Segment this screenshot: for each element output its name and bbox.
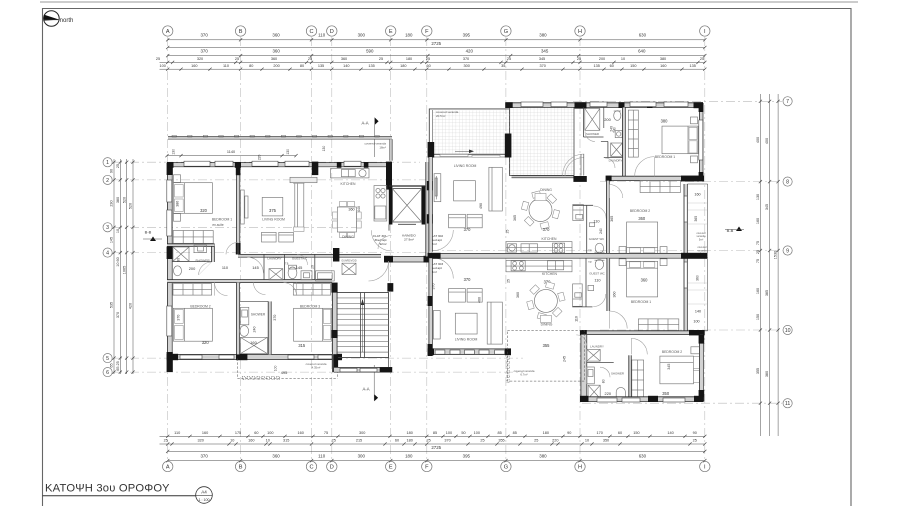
svg-text:20.5m²: 20.5m² bbox=[436, 114, 445, 118]
bedroom 2 bed bbox=[173, 308, 212, 341]
page top trim line bbox=[40, 1, 858, 3]
svg-text:135: 135 bbox=[368, 64, 374, 68]
svg-text:370: 370 bbox=[464, 227, 472, 232]
svg-text:25: 25 bbox=[332, 439, 336, 443]
svg-text:90: 90 bbox=[567, 431, 571, 435]
svg-text:6.7m²: 6.7m² bbox=[520, 373, 527, 377]
bottom dimension row 1 bbox=[160, 435, 705, 437]
svg-text:75: 75 bbox=[756, 259, 760, 263]
bedroom 1 nightstands bbox=[174, 175, 181, 221]
svg-text:145: 145 bbox=[296, 265, 303, 270]
svg-text:160: 160 bbox=[756, 218, 760, 224]
top dimension row 3 bbox=[160, 61, 705, 63]
svg-text:180: 180 bbox=[543, 431, 549, 435]
hall cabinet 301 bbox=[316, 271, 335, 281]
svg-text:160: 160 bbox=[248, 439, 254, 443]
svg-text:140: 140 bbox=[343, 64, 349, 68]
svg-text:E: E bbox=[389, 465, 393, 471]
svg-text:230: 230 bbox=[110, 200, 114, 206]
grid bubble H bottom bbox=[575, 461, 585, 471]
svg-text:495: 495 bbox=[281, 370, 288, 375]
svg-text:27.9m²: 27.9m² bbox=[404, 238, 414, 242]
bedroom1 302 south wall bbox=[606, 176, 704, 182]
svg-text:1530: 1530 bbox=[774, 251, 778, 259]
bedroom1 303 labels bbox=[613, 277, 652, 304]
svg-text:A4: A4 bbox=[201, 490, 207, 495]
bedroom2 302 wardrobe bbox=[640, 181, 680, 193]
svg-text:140: 140 bbox=[695, 310, 701, 314]
right veranda top edge bbox=[429, 108, 509, 110]
grid bubble D bottom bbox=[327, 461, 337, 471]
svg-text:C: C bbox=[309, 29, 313, 35]
svg-text:180: 180 bbox=[407, 439, 413, 443]
svg-text:355: 355 bbox=[756, 368, 760, 374]
svg-text:370: 370 bbox=[273, 315, 277, 321]
svg-text:180: 180 bbox=[407, 431, 413, 435]
svg-text:145: 145 bbox=[110, 237, 114, 243]
svg-text:100: 100 bbox=[446, 431, 452, 435]
svg-text:395: 395 bbox=[463, 33, 471, 38]
kitchen 302 tall cabinets bbox=[573, 205, 584, 221]
living room 303 table bbox=[455, 313, 477, 334]
grid bubble 11 right bbox=[783, 399, 792, 408]
svg-text:KITCHEN: KITCHEN bbox=[341, 182, 356, 186]
grid bubble B bottom bbox=[235, 461, 245, 471]
svg-text:170: 170 bbox=[597, 431, 603, 435]
door arc ensuite 301 bbox=[199, 262, 212, 275]
flat 302 tag bbox=[430, 234, 444, 246]
svg-text:25: 25 bbox=[700, 57, 704, 61]
kitchen 303 counters bbox=[506, 260, 572, 276]
bedroom1 302 west wall bbox=[623, 107, 626, 176]
grid bubble 6 bbox=[103, 368, 112, 377]
kitchen counter right column bbox=[374, 186, 387, 221]
living room sofa bbox=[294, 179, 304, 231]
svg-text:200: 200 bbox=[604, 117, 611, 122]
door arc bedroom1 303 bbox=[610, 311, 628, 329]
bedroom1 302 wardrobe bbox=[628, 110, 638, 157]
svg-text:345: 345 bbox=[539, 57, 545, 61]
svg-text:160: 160 bbox=[756, 288, 760, 294]
svg-text:T.P.: T.P. bbox=[588, 261, 592, 264]
svg-text:110: 110 bbox=[223, 64, 229, 68]
svg-text:370: 370 bbox=[463, 57, 469, 61]
svg-text:90: 90 bbox=[177, 258, 181, 262]
door arc shower mid 301 bbox=[254, 283, 266, 295]
grid line 7 bbox=[573, 100, 782, 102]
bedroom 1 labels bbox=[176, 201, 233, 227]
right veranda west edge bbox=[429, 109, 432, 158]
svg-text:150: 150 bbox=[633, 431, 639, 435]
shower-wc 302 south wall bbox=[601, 107, 608, 141]
svg-text:360: 360 bbox=[272, 49, 280, 54]
svg-text:320: 320 bbox=[198, 439, 204, 443]
svg-text:25: 25 bbox=[308, 57, 312, 61]
svg-text:370: 370 bbox=[200, 33, 208, 38]
svg-text:8: 8 bbox=[786, 180, 789, 186]
svg-text:365: 365 bbox=[610, 216, 614, 222]
svg-text:85: 85 bbox=[513, 431, 517, 435]
svg-text:SHOWER: SHOWER bbox=[611, 371, 624, 375]
living room 303 armchairs bbox=[449, 289, 483, 303]
svg-text:H: H bbox=[578, 465, 582, 471]
svg-text:100: 100 bbox=[160, 64, 166, 68]
grid line 9 bbox=[430, 250, 782, 252]
middle shower labels bbox=[250, 313, 266, 346]
door arc guestwc 301 bbox=[297, 254, 308, 265]
svg-text:90: 90 bbox=[110, 169, 114, 173]
title underline bbox=[43, 495, 196, 497]
wall below bedroom1 303 bbox=[580, 330, 705, 335]
svg-text:320: 320 bbox=[200, 208, 208, 213]
svg-text:360: 360 bbox=[696, 275, 700, 281]
svg-text:110: 110 bbox=[318, 454, 326, 459]
bedroom 1 wardrobe bbox=[173, 231, 213, 244]
section marker A-A bottom bbox=[363, 365, 379, 401]
left block west wall piers bbox=[167, 163, 173, 372]
svg-text:92m²: 92m² bbox=[379, 242, 386, 246]
door arc shower 303 bbox=[600, 367, 610, 377]
grid bubble 9 right bbox=[783, 246, 792, 255]
svg-text:630: 630 bbox=[639, 33, 647, 38]
svg-text:25: 25 bbox=[116, 164, 120, 168]
door arc bedroom2 301 bbox=[215, 283, 228, 296]
svg-text:360: 360 bbox=[641, 277, 649, 282]
svg-text:180: 180 bbox=[400, 64, 406, 68]
svg-text:BEDROOM 1: BEDROOM 1 bbox=[631, 300, 651, 304]
svg-text:10 60: 10 60 bbox=[116, 257, 120, 267]
svg-text:100: 100 bbox=[267, 431, 273, 435]
svg-text:215: 215 bbox=[356, 439, 362, 443]
grid bubble 5 bbox=[103, 354, 112, 363]
svg-text:380: 380 bbox=[539, 33, 547, 38]
middle shower wc bbox=[240, 326, 249, 337]
svg-text:A-A: A-A bbox=[362, 121, 369, 126]
svg-text:160: 160 bbox=[191, 64, 197, 68]
grid line 2 bbox=[113, 179, 433, 181]
svg-text:60: 60 bbox=[395, 439, 399, 443]
section marker B-B left bbox=[143, 230, 162, 242]
dining 303 round table bbox=[527, 282, 579, 327]
middle shower pan bbox=[240, 337, 267, 353]
svg-text:25: 25 bbox=[506, 230, 510, 234]
svg-text:50: 50 bbox=[461, 431, 465, 435]
svg-text:640: 640 bbox=[638, 49, 646, 54]
ensuite labels bbox=[177, 258, 211, 263]
svg-text:H: H bbox=[578, 29, 582, 35]
flat303 entrance door arc bbox=[433, 258, 454, 279]
svg-text:460: 460 bbox=[478, 297, 482, 303]
door arc bedroom2 302 bbox=[609, 185, 623, 199]
grid line 3 bbox=[113, 226, 362, 228]
svg-text:135: 135 bbox=[690, 64, 696, 68]
ensuite walls bbox=[167, 244, 214, 262]
svg-text:200: 200 bbox=[599, 57, 605, 61]
left veranda posts bbox=[242, 376, 279, 379]
svg-text:4: 4 bbox=[106, 251, 109, 257]
svg-text:E: E bbox=[389, 29, 393, 35]
svg-text:140: 140 bbox=[667, 431, 673, 435]
bedroom1 303 west wall bbox=[607, 258, 610, 311]
svg-text:360: 360 bbox=[272, 454, 280, 459]
dining table left flat bbox=[333, 202, 362, 238]
grid line G bbox=[505, 37, 507, 461]
svg-text:25: 25 bbox=[756, 250, 760, 254]
svg-text:80: 80 bbox=[602, 379, 606, 383]
veranda label 302 bbox=[436, 110, 459, 118]
door arc bedroom1 302 bbox=[635, 157, 655, 177]
svg-text:25: 25 bbox=[156, 57, 160, 61]
ensuite shower stall bbox=[173, 247, 189, 261]
svg-text:10: 10 bbox=[585, 439, 589, 443]
svg-text:25: 25 bbox=[507, 57, 511, 61]
svg-text:370: 370 bbox=[200, 49, 208, 54]
left block top windows bbox=[184, 161, 361, 166]
svg-text:25: 25 bbox=[507, 279, 511, 283]
grid bubble 1 bbox=[103, 158, 112, 167]
elevator shaft bbox=[389, 186, 425, 225]
svg-text:100: 100 bbox=[274, 365, 278, 371]
svg-text:D: D bbox=[330, 29, 334, 35]
svg-text:360: 360 bbox=[613, 292, 617, 298]
bedroom1 303 bed bbox=[619, 259, 667, 297]
svg-text:10: 10 bbox=[230, 439, 234, 443]
stair NE pier bbox=[387, 283, 393, 292]
svg-text:590: 590 bbox=[366, 49, 374, 54]
svg-text:1065: 1065 bbox=[122, 266, 126, 274]
svg-text:380: 380 bbox=[176, 201, 180, 207]
living room 302 armchairs bbox=[449, 214, 483, 228]
bedroom2 303 labels bbox=[662, 350, 682, 396]
door arc laundry 303 bbox=[576, 335, 587, 346]
door arc hall 302 bbox=[565, 158, 584, 177]
svg-text:A-A: A-A bbox=[363, 387, 370, 392]
grid line 5 bbox=[113, 357, 523, 359]
svg-text:395: 395 bbox=[463, 454, 471, 459]
right east windows upper bbox=[699, 120, 703, 160]
svg-text:BEDROOM 2: BEDROOM 2 bbox=[630, 209, 650, 213]
svg-text:BEDROOM 3: BEDROOM 3 bbox=[300, 304, 320, 308]
grid bubble F bottom bbox=[422, 461, 432, 471]
stairwell tag bbox=[402, 234, 416, 242]
grid line C bbox=[311, 37, 313, 461]
grid bubble G top bbox=[501, 26, 511, 36]
grid bubble 3 bbox=[103, 223, 112, 232]
left block top wall bbox=[167, 163, 391, 167]
svg-text:420: 420 bbox=[129, 303, 133, 309]
svg-text:1 : 100: 1 : 100 bbox=[199, 498, 210, 502]
east wall middle bbox=[684, 184, 687, 331]
svg-text:2725: 2725 bbox=[431, 445, 441, 450]
bedroom 3 labels bbox=[273, 304, 320, 348]
bedroom 1 bed bbox=[173, 183, 212, 214]
door arc living 301 bbox=[247, 257, 263, 273]
living room 302 labels bbox=[454, 164, 483, 232]
grid bubble A top bbox=[163, 26, 173, 36]
left block west wall bbox=[167, 163, 172, 372]
grid bubble G bottom bbox=[501, 461, 511, 471]
svg-text:160: 160 bbox=[660, 64, 666, 68]
living room TV unit bbox=[241, 190, 248, 224]
living room 302 sofa right bbox=[489, 167, 502, 211]
svg-text:100: 100 bbox=[474, 431, 480, 435]
svg-text:440: 440 bbox=[357, 206, 361, 212]
ensuite wc bbox=[174, 266, 182, 276]
core east wall bbox=[426, 162, 429, 256]
svg-text:360: 360 bbox=[341, 57, 347, 61]
svg-text:75: 75 bbox=[756, 241, 760, 245]
svg-text:SHOWER: SHOWER bbox=[586, 132, 599, 136]
svg-text:520: 520 bbox=[129, 203, 133, 209]
svg-text:365: 365 bbox=[694, 216, 698, 222]
svg-text:10: 10 bbox=[621, 57, 625, 61]
svg-text:BEDROOM 2: BEDROOM 2 bbox=[662, 350, 682, 354]
svg-text:300: 300 bbox=[358, 454, 366, 459]
svg-text:KITCHEN: KITCHEN bbox=[542, 237, 557, 241]
svg-text:3: 3 bbox=[106, 225, 109, 231]
bedroom1 302 bed bbox=[662, 126, 698, 154]
left dimension column bbox=[110, 159, 135, 374]
svg-text:315: 315 bbox=[298, 343, 306, 348]
svg-text:345: 345 bbox=[541, 49, 549, 54]
living room 303 sofa left bbox=[433, 311, 440, 340]
svg-text:75: 75 bbox=[324, 431, 328, 435]
svg-text:375: 375 bbox=[269, 208, 277, 213]
core south windows bbox=[340, 368, 377, 372]
svg-text:DINING: DINING bbox=[540, 188, 552, 192]
flat 303 tag bbox=[430, 262, 444, 274]
svg-text:245: 245 bbox=[562, 356, 566, 362]
svg-text:200: 200 bbox=[189, 266, 196, 271]
svg-text:345: 345 bbox=[667, 364, 671, 370]
grid bubble H top bbox=[575, 26, 585, 36]
svg-text:160: 160 bbox=[694, 193, 700, 197]
svg-text:370: 370 bbox=[543, 227, 551, 232]
svg-text:5m²: 5m² bbox=[699, 238, 703, 241]
svg-text:135: 135 bbox=[318, 64, 324, 68]
core south wall bbox=[334, 367, 392, 372]
svg-text:9: 9 bbox=[786, 248, 789, 254]
guest wc 301 bbox=[285, 254, 315, 280]
svg-text:11: 11 bbox=[785, 401, 790, 407]
laundry 303 room bbox=[581, 335, 614, 401]
svg-text:GUARD/VOID: GUARD/VOID bbox=[341, 259, 356, 262]
grid bubble 10 right bbox=[783, 325, 792, 334]
living room armchairs bbox=[262, 232, 294, 242]
svg-text:160: 160 bbox=[202, 431, 208, 435]
svg-text:355: 355 bbox=[543, 343, 551, 348]
door arc bedroom1 301 bbox=[226, 242, 238, 254]
svg-text:160: 160 bbox=[250, 340, 257, 345]
svg-text:360: 360 bbox=[271, 57, 277, 61]
living room 302 table bbox=[454, 181, 476, 201]
svg-text:135: 135 bbox=[594, 64, 600, 68]
door arc guestwc303 bottom bbox=[593, 294, 606, 307]
svg-text:25: 25 bbox=[426, 439, 430, 443]
shower 302 room bbox=[584, 107, 617, 137]
door arc laundry 302 bbox=[605, 158, 615, 168]
right veranda tiled floor main bbox=[510, 104, 575, 176]
svg-text:380: 380 bbox=[661, 119, 669, 124]
svg-text:370: 370 bbox=[116, 312, 120, 318]
top dimension row 1 bbox=[168, 39, 705, 41]
svg-text:320: 320 bbox=[202, 340, 210, 345]
bottom dimension row 3 bbox=[168, 460, 705, 462]
svg-text:60: 60 bbox=[254, 431, 258, 435]
bedroom1 303 wardrobe bbox=[638, 319, 678, 331]
bedroom2 303 west wall bbox=[629, 355, 632, 399]
svg-text:2: 2 bbox=[106, 178, 109, 184]
bedrooms north wall bbox=[167, 280, 332, 283]
svg-text:300: 300 bbox=[358, 33, 366, 38]
svg-text:C: C bbox=[309, 465, 313, 471]
svg-text:400: 400 bbox=[765, 138, 769, 144]
svg-text:GUEST WC: GUEST WC bbox=[589, 237, 605, 241]
svg-text:220: 220 bbox=[605, 391, 612, 396]
svg-text:25: 25 bbox=[379, 57, 383, 61]
svg-text:25: 25 bbox=[693, 439, 697, 443]
svg-text:GUEST WC: GUEST WC bbox=[589, 272, 605, 276]
grid line 8 bbox=[600, 181, 782, 183]
svg-text:220: 220 bbox=[258, 154, 262, 160]
svg-text:365: 365 bbox=[513, 215, 517, 221]
svg-text:F: F bbox=[425, 465, 429, 471]
svg-text:LAUNDRY: LAUNDRY bbox=[590, 344, 604, 348]
grid bubble I top bbox=[700, 26, 710, 36]
svg-text:380: 380 bbox=[539, 454, 547, 459]
corridor dims bbox=[189, 265, 315, 271]
stairwell bbox=[337, 293, 389, 368]
shower 303 room bbox=[587, 367, 626, 399]
section marker B-B right bbox=[725, 227, 744, 234]
svg-text:80: 80 bbox=[249, 64, 253, 68]
bottom dimension row 2725 bbox=[168, 450, 705, 452]
svg-text:DINING: DINING bbox=[342, 235, 354, 239]
svg-text:110: 110 bbox=[222, 265, 229, 270]
svg-text:ΚΑΤΟΨΗ 3ου ΟΡΟΦΟΥ: ΚΑΤΟΨΗ 3ου ΟΡΟΦΟΥ bbox=[45, 483, 170, 495]
svg-text:200: 200 bbox=[273, 64, 279, 68]
svg-text:320: 320 bbox=[197, 57, 203, 61]
living 303 south windows bbox=[435, 350, 505, 354]
grid line 4 bbox=[113, 252, 433, 254]
svg-text:110: 110 bbox=[318, 33, 326, 38]
core west wall bbox=[331, 283, 338, 373]
bedroom2 302 bed bbox=[619, 222, 667, 253]
svg-text:240: 240 bbox=[253, 327, 257, 333]
svg-text:370: 370 bbox=[432, 284, 436, 290]
grid line B bbox=[240, 37, 242, 461]
svg-text:25: 25 bbox=[577, 57, 581, 61]
svg-text:LAUNDRY: LAUNDRY bbox=[267, 256, 281, 260]
svg-text:60: 60 bbox=[618, 431, 622, 435]
svg-text:1140: 1140 bbox=[227, 150, 235, 154]
flat divider wall 302-303 bbox=[428, 253, 707, 259]
middle shower sink bbox=[240, 307, 248, 325]
living room 303 south wall bbox=[428, 348, 511, 355]
grid line 11 bbox=[582, 402, 782, 404]
elevator lower walls bbox=[389, 225, 429, 263]
bedroom2 302 west wall bbox=[607, 181, 610, 254]
svg-text:350: 350 bbox=[603, 439, 609, 443]
bedroom2 303 wardrobe bbox=[632, 360, 644, 399]
section marker A-A top bbox=[362, 118, 379, 158]
bedroom 3 bed bbox=[294, 308, 332, 341]
svg-text:220: 220 bbox=[552, 439, 558, 443]
grid line E bbox=[390, 37, 392, 461]
right north windows bbox=[521, 102, 688, 107]
svg-text:7: 7 bbox=[786, 99, 789, 105]
top dimension row 2 bbox=[168, 55, 705, 57]
